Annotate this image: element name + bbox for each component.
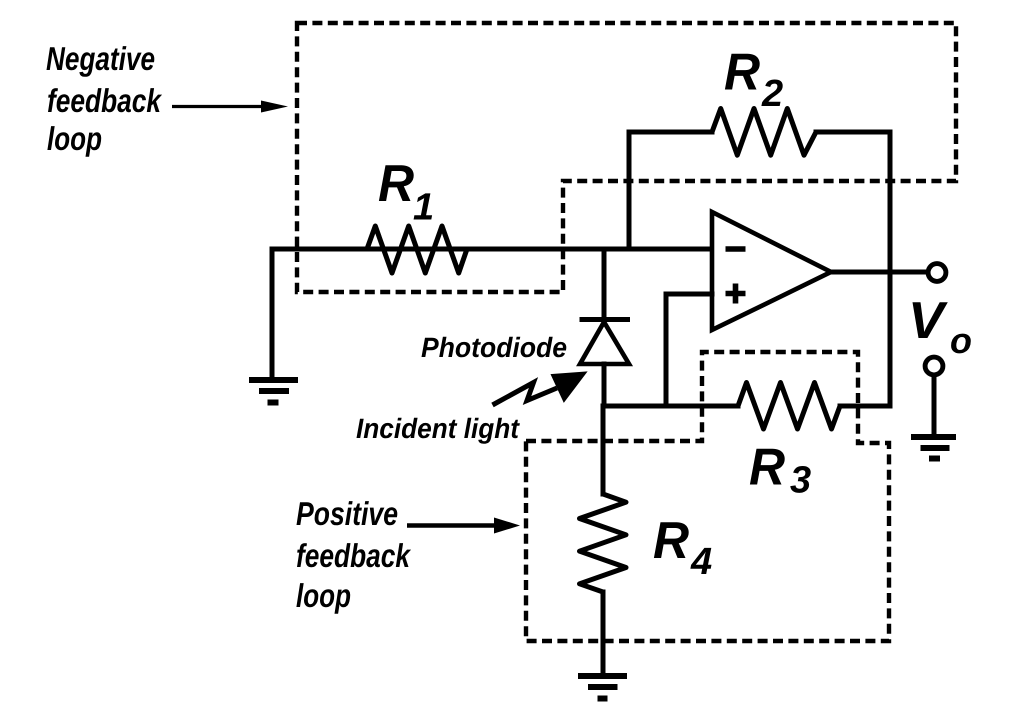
label Photodiode: Photodiode bbox=[422, 337, 567, 358]
label R4 letter: R bbox=[654, 522, 689, 558]
label Vo letter: V bbox=[913, 302, 948, 338]
label Vo subscript: o bbox=[951, 334, 971, 354]
wire: non-inverting input branch bbox=[666, 294, 712, 406]
resistor R3 zigzag bbox=[738, 383, 840, 430]
photodiode top lead bbox=[602, 249, 607, 317]
resistor R2 zigzag bbox=[712, 109, 816, 156]
wire: R3 right lead bbox=[840, 404, 890, 409]
wire: left drop to ground bbox=[270, 249, 275, 380]
label R3 letter: R bbox=[750, 449, 785, 485]
wire: R4 top lead bbox=[601, 406, 606, 494]
op-amp plus sign bbox=[726, 284, 746, 304]
arrow: negative feedback label pointer bbox=[172, 101, 288, 113]
label R1 subscript: 1 bbox=[414, 193, 433, 219]
incident light arrow bbox=[493, 373, 586, 406]
label pos loop: loop bbox=[296, 583, 350, 614]
ground (right, under Vo) bbox=[911, 437, 956, 459]
wire: R2 right lead bbox=[816, 130, 890, 135]
label Incident light: Incident light bbox=[357, 418, 520, 444]
op-amp U1 bbox=[712, 212, 831, 330]
ground (bottom, under R4) bbox=[578, 676, 627, 699]
label pos feedback: feedback bbox=[297, 543, 411, 567]
output terminal circle bbox=[928, 264, 946, 282]
label R4 subscript: 4 bbox=[690, 548, 711, 574]
wire: main input from left node to op-amp inverting input bbox=[272, 247, 712, 252]
positive feedback loop dashed outline (merged with R3 box) bbox=[526, 352, 889, 641]
label R2 subscript: 2 bbox=[761, 80, 782, 107]
arrow: positive feedback label pointer bbox=[407, 518, 520, 534]
label neg feedback: feedback bbox=[48, 88, 162, 112]
label Positive: Positive bbox=[297, 501, 398, 525]
label R2 letter: R bbox=[725, 54, 760, 90]
resistor R4 zigzag bbox=[580, 494, 627, 592]
wire: R4 bottom lead bbox=[601, 592, 606, 676]
op-amp minus sign bbox=[726, 246, 746, 252]
label R1 letter: R bbox=[379, 165, 414, 201]
photodiode D1 bbox=[580, 320, 631, 365]
negative feedback loop dashed outline bbox=[297, 23, 956, 292]
photodiode bottom lead bbox=[602, 364, 607, 406]
wire: R2 left branch up bbox=[627, 132, 632, 249]
label Negative: Negative bbox=[47, 46, 155, 77]
wire: lower terminal to ground bbox=[932, 377, 937, 437]
wire: feedback vertical from R2 right end down to R3 bbox=[888, 132, 893, 406]
lower terminal circle bbox=[925, 357, 943, 375]
label neg loop: loop bbox=[47, 126, 101, 157]
wire: op-amp output bbox=[831, 270, 926, 275]
label R3 subscript: 3 bbox=[790, 466, 810, 493]
ground (left) bbox=[249, 380, 298, 403]
wire: node row from photodiode to R3 bbox=[604, 404, 738, 409]
wire: R2 left lead bbox=[629, 130, 712, 135]
resistor R1 zigzag bbox=[367, 226, 467, 273]
